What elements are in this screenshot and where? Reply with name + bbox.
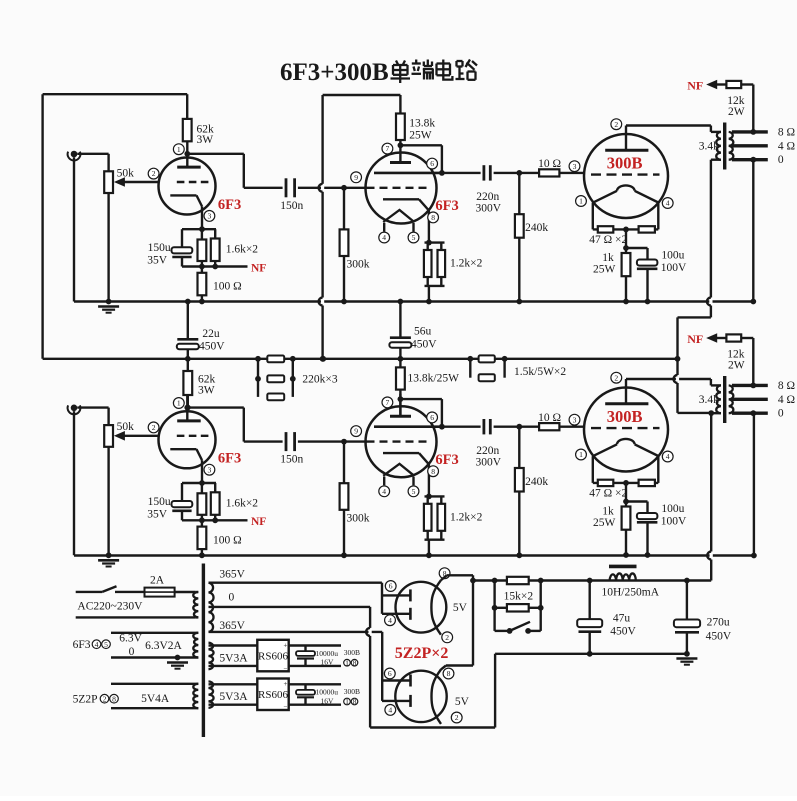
svg-text:6.3V2A: 6.3V2A xyxy=(145,640,182,652)
svg-text:300B: 300B xyxy=(344,687,360,696)
svg-text:NF: NF xyxy=(687,332,703,346)
svg-text:3W: 3W xyxy=(198,385,215,397)
svg-text:7: 7 xyxy=(386,144,390,153)
svg-text:2: 2 xyxy=(455,713,459,722)
svg-text:220k×3: 220k×3 xyxy=(302,373,337,385)
svg-text:1: 1 xyxy=(177,399,181,408)
svg-text:450V: 450V xyxy=(706,631,732,643)
svg-text:3: 3 xyxy=(208,212,212,221)
svg-text:25W: 25W xyxy=(593,263,616,275)
svg-text:5Z2P×2: 5Z2P×2 xyxy=(395,645,449,662)
svg-text:100V: 100V xyxy=(661,262,687,274)
svg-text:9: 9 xyxy=(354,173,358,182)
svg-text:1k: 1k xyxy=(602,252,614,264)
svg-text:47 Ω ×2: 47 Ω ×2 xyxy=(589,488,627,500)
svg-text:1: 1 xyxy=(345,658,349,667)
svg-text:6: 6 xyxy=(430,159,434,168)
svg-text:5V4A: 5V4A xyxy=(141,693,170,705)
svg-text:0: 0 xyxy=(129,646,135,658)
svg-text:10000u: 10000u xyxy=(316,688,339,697)
svg-text:+: + xyxy=(284,641,288,649)
svg-text:2: 2 xyxy=(445,633,449,642)
svg-text:47u: 47u xyxy=(613,612,631,624)
svg-text:3: 3 xyxy=(208,465,212,474)
svg-text:25W: 25W xyxy=(593,517,616,529)
svg-text:8 Ω: 8 Ω xyxy=(778,126,795,138)
svg-text:NF: NF xyxy=(687,79,703,93)
svg-text:50k: 50k xyxy=(117,421,135,433)
svg-text:300B: 300B xyxy=(607,154,643,173)
svg-text:150u: 150u xyxy=(148,242,171,254)
svg-text:1: 1 xyxy=(345,697,349,706)
svg-text:2W: 2W xyxy=(728,360,745,372)
svg-text:100V: 100V xyxy=(661,515,687,527)
svg-text:365V: 365V xyxy=(219,568,245,580)
svg-text:2: 2 xyxy=(614,373,618,382)
svg-text:8 Ω: 8 Ω xyxy=(778,380,795,392)
svg-text:4: 4 xyxy=(388,706,392,715)
svg-text:3W: 3W xyxy=(197,134,214,146)
svg-text:300B: 300B xyxy=(607,407,643,426)
svg-text:−: − xyxy=(284,664,288,672)
svg-text:1: 1 xyxy=(579,450,583,459)
svg-text:NF: NF xyxy=(251,262,266,274)
svg-text:13.8k/25W: 13.8k/25W xyxy=(408,373,460,385)
svg-text:1.6k×2: 1.6k×2 xyxy=(226,497,259,509)
svg-text:300V: 300V xyxy=(476,456,502,468)
svg-text:1.6k×2: 1.6k×2 xyxy=(226,244,259,256)
svg-text:4 Ω: 4 Ω xyxy=(778,394,795,406)
svg-text:2: 2 xyxy=(152,169,156,178)
svg-text:100u: 100u xyxy=(661,250,684,262)
svg-text:8: 8 xyxy=(353,697,357,706)
svg-text:100 Ω: 100 Ω xyxy=(213,534,242,546)
svg-text:1.5k/5W×2: 1.5k/5W×2 xyxy=(514,366,566,378)
svg-text:2: 2 xyxy=(152,423,156,432)
svg-text:0: 0 xyxy=(229,592,235,604)
svg-text:8: 8 xyxy=(431,467,435,476)
svg-text:10H/250mA: 10H/250mA xyxy=(602,586,660,598)
svg-text:RS606: RS606 xyxy=(258,650,288,662)
svg-text:1: 1 xyxy=(177,145,181,154)
svg-text:2: 2 xyxy=(614,120,618,129)
svg-text:NF: NF xyxy=(251,516,266,528)
svg-text:300B: 300B xyxy=(344,648,360,657)
svg-text:5: 5 xyxy=(104,640,108,649)
svg-text:13.8k: 13.8k xyxy=(409,117,435,129)
svg-text:220n: 220n xyxy=(476,445,499,457)
svg-text:450V: 450V xyxy=(199,340,225,352)
svg-text:5: 5 xyxy=(412,233,416,242)
svg-text:300V: 300V xyxy=(476,203,502,215)
svg-text:1.2k×2: 1.2k×2 xyxy=(450,511,483,523)
svg-text:270u: 270u xyxy=(707,617,730,629)
svg-text:22u: 22u xyxy=(202,328,220,340)
svg-text:−: − xyxy=(284,703,288,711)
svg-text:1.2k×2: 1.2k×2 xyxy=(450,258,483,270)
svg-text:220n: 220n xyxy=(476,191,499,203)
svg-text:6: 6 xyxy=(430,413,434,422)
svg-text:2: 2 xyxy=(103,694,107,703)
svg-text:6F3: 6F3 xyxy=(218,197,241,213)
svg-text:240k: 240k xyxy=(525,476,548,488)
svg-text:+: + xyxy=(284,680,288,688)
svg-text:5Z2P: 5Z2P xyxy=(73,693,98,705)
svg-text:6F3: 6F3 xyxy=(218,451,241,467)
svg-text:47 Ω ×2: 47 Ω ×2 xyxy=(589,234,627,246)
svg-text:300k: 300k xyxy=(347,512,370,524)
svg-text:6.3V: 6.3V xyxy=(119,632,142,644)
svg-text:4 Ω: 4 Ω xyxy=(778,141,795,153)
svg-text:4: 4 xyxy=(388,616,392,625)
svg-text:8: 8 xyxy=(447,669,451,678)
svg-text:0: 0 xyxy=(778,154,784,166)
svg-text:1k: 1k xyxy=(602,506,614,518)
svg-text:4: 4 xyxy=(95,640,99,649)
svg-text:6: 6 xyxy=(389,582,393,591)
svg-text:3.4k: 3.4k xyxy=(699,394,719,406)
svg-text:35V: 35V xyxy=(147,255,168,267)
svg-text:50k: 50k xyxy=(117,167,135,179)
svg-text:3: 3 xyxy=(573,415,577,424)
svg-text:5V3A: 5V3A xyxy=(219,691,248,703)
svg-text:56u: 56u xyxy=(414,326,432,338)
svg-text:16V: 16V xyxy=(321,697,335,706)
svg-text:15k×2: 15k×2 xyxy=(504,591,534,603)
svg-text:5: 5 xyxy=(412,487,416,496)
svg-text:150u: 150u xyxy=(148,496,171,508)
svg-text:6: 6 xyxy=(388,669,392,678)
svg-text:25W: 25W xyxy=(409,129,432,141)
svg-text:100 Ω: 100 Ω xyxy=(213,281,242,293)
svg-text:6F3: 6F3 xyxy=(73,639,91,651)
svg-text:2W: 2W xyxy=(728,106,745,118)
svg-text:4: 4 xyxy=(382,487,386,496)
svg-text:AC220~230V: AC220~230V xyxy=(77,601,143,613)
svg-text:10000u: 10000u xyxy=(316,649,339,658)
svg-text:4: 4 xyxy=(666,199,670,208)
svg-text:8: 8 xyxy=(112,694,116,703)
svg-text:6F3+300B: 6F3+300B xyxy=(280,59,389,86)
svg-text:7: 7 xyxy=(386,398,390,407)
svg-text:150n: 150n xyxy=(280,200,303,212)
svg-text:0: 0 xyxy=(778,407,784,419)
svg-text:5V: 5V xyxy=(455,696,470,708)
svg-text:8: 8 xyxy=(353,658,357,667)
svg-text:6F3: 6F3 xyxy=(435,198,458,214)
svg-text:450V: 450V xyxy=(610,626,636,638)
svg-text:5V3A: 5V3A xyxy=(219,652,248,664)
svg-text:150n: 150n xyxy=(280,454,303,466)
svg-text:8: 8 xyxy=(431,213,435,222)
svg-text:450V: 450V xyxy=(411,339,437,351)
svg-text:10 Ω: 10 Ω xyxy=(538,158,561,170)
svg-text:35V: 35V xyxy=(147,508,168,520)
svg-text:1: 1 xyxy=(579,197,583,206)
svg-text:4: 4 xyxy=(382,233,386,242)
svg-text:6F3: 6F3 xyxy=(435,452,458,468)
svg-text:RS606: RS606 xyxy=(258,689,288,701)
svg-text:100u: 100u xyxy=(661,503,684,515)
svg-text:3: 3 xyxy=(573,162,577,171)
svg-text:4: 4 xyxy=(666,452,670,461)
svg-text:3.4k: 3.4k xyxy=(699,140,719,152)
svg-text:5V: 5V xyxy=(453,602,468,614)
svg-text:16V: 16V xyxy=(321,658,335,667)
svg-text:300k: 300k xyxy=(347,259,370,271)
svg-text:2A: 2A xyxy=(150,574,165,586)
svg-text:240k: 240k xyxy=(525,222,548,234)
svg-text:365V: 365V xyxy=(219,620,245,632)
svg-text:9: 9 xyxy=(354,427,358,436)
svg-text:10 Ω: 10 Ω xyxy=(538,412,561,424)
